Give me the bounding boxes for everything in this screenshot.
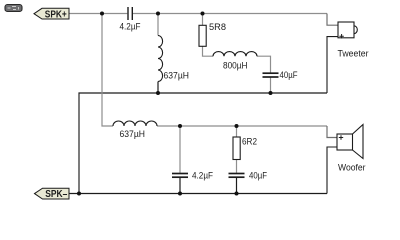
svg-text:6R2: 6R2 [242, 137, 257, 147]
net flag SPK- [35, 188, 70, 200]
junction (270.5,93) [269, 91, 273, 95]
wire: lead of vertical 637uH inductor bottom to rail [157, 82, 159, 94]
speaker Tweeter [338, 22, 369, 58]
svg-text:Woofer: Woofer [338, 162, 366, 172]
junction node E (202.5,13.5) [201, 12, 205, 16]
wire: 5R8 bottom to 800uH coil (gray) [203, 46, 214, 56]
wire: lead 5R8 top (gray) [202, 14, 204, 26]
capacitor 4.2uF (woofer shunt) [172, 170, 213, 180]
wire: lead of vertical 637uH inductor top (gray) [157, 14, 159, 36]
wire: lead 40uF shunt cap bottom to rail (black) [236, 178, 238, 194]
capacitor 40uF (woofer shunt RC) [229, 170, 268, 180]
wire: tweeter minus lead down to rail (black) [327, 37, 338, 93]
wire: bottom rail SPK- (black) y=193.5 [69, 193, 327, 195]
junction node A (102,13.5) [100, 12, 104, 16]
junction (79,193.5) [77, 192, 81, 196]
svg-text:637µH: 637µH [164, 71, 190, 81]
capacitor 4.2uF series (top) [120, 7, 141, 31]
capacitor 40uF (tweeter shunt) [263, 70, 298, 80]
svg-text:4.2µF: 4.2µF [120, 21, 141, 31]
svg-text:40µF: 40µF [249, 170, 267, 180]
junction (180,126) [178, 124, 182, 128]
wire: lead 6R2 top (gray) [236, 126, 238, 137]
inductor 800uH horizontal [213, 52, 257, 71]
resistor 6R2 [233, 137, 257, 160]
svg-text:800µH: 800µH [223, 61, 248, 71]
wire: lead 4.2uF shunt cap bottom to rail (black) [179, 178, 181, 194]
speaker Woofer [337, 125, 366, 173]
svg-text:5R8: 5R8 [209, 22, 226, 32]
junction (158,93) [156, 91, 160, 95]
wire: woofer minus lead down to rail (black) [327, 147, 337, 194]
wire: 800uH coil to 40uF cap (gray) [257, 56, 271, 72]
svg-text:40µF: 40µF [280, 70, 298, 80]
junction node B (158,13.5) [156, 12, 160, 16]
wire: vertical from node A down to woofer branch (gray, crosses rail) [102, 14, 113, 127]
inductor 637uH horizontal (woofer series) [113, 121, 157, 139]
wire: lead 4.2uF shunt cap top (gray) [179, 126, 181, 173]
wire: lead 6R2 bottom to 40uF cap (gray) [236, 160, 238, 173]
logo badge [5, 5, 22, 12]
wire: 40uF cap bottom to rail (gray) [270, 78, 272, 94]
junction (236.5,193.5) [235, 192, 239, 196]
wire: woofer section line y=126 (gray) [157, 125, 327, 127]
wire: top line SPK+ from flag to tweeter corner (gray) [69, 13, 127, 15]
net flag SPK+ [34, 8, 69, 20]
svg-text:637µH: 637µH [120, 129, 146, 139]
resistor 5R8 [199, 22, 226, 46]
junction (236.5,126) [235, 124, 239, 128]
wire: negative rail y=93 with drop at x=79 (black) [79, 93, 327, 194]
svg-text:Tweeter: Tweeter [338, 48, 369, 58]
junction (180,193.5) [178, 192, 182, 196]
svg-text:4.2µF: 4.2µF [192, 170, 213, 180]
svg-text:SPK–: SPK– [45, 189, 67, 200]
wire: tweeter plus feed (gray) [327, 14, 338, 26]
svg-text:SPK+: SPK+ [45, 9, 67, 20]
inductor 637uH vertical (top section shunt) [158, 36, 189, 82]
